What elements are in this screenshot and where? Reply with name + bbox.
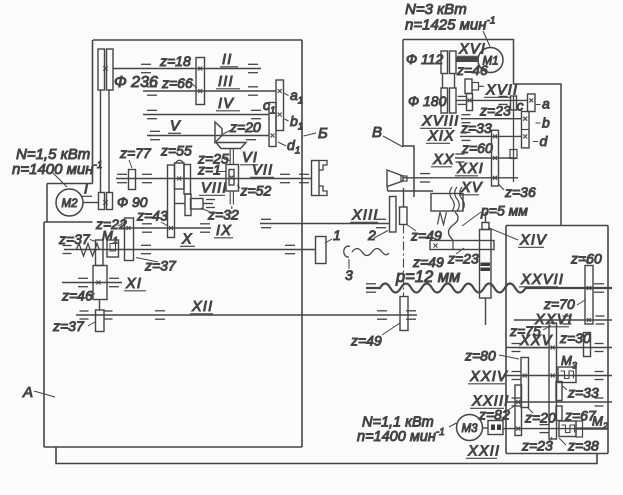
bearing XVII bbox=[499, 96, 508, 104]
gear col3 hub mark 2 bbox=[516, 427, 520, 431]
svg-text:z=23: z=23 bbox=[521, 438, 553, 454]
bearing VII 3 bbox=[280, 174, 290, 182]
svg-text:z=23: z=23 bbox=[479, 103, 511, 119]
bearing XXII 1 bbox=[540, 425, 549, 433]
svg-text:z=49: z=49 bbox=[350, 333, 382, 349]
shaft XI bbox=[62, 282, 122, 284]
label shaft XII bbox=[190, 299, 213, 315]
shaft XV bbox=[388, 190, 434, 192]
svg-text:z=46: z=46 bbox=[456, 62, 488, 78]
gear item 2 bbox=[390, 197, 397, 233]
label shaft XXII bbox=[466, 444, 500, 460]
leader z=32 bbox=[201, 208, 210, 212]
label shaft XVIII bbox=[420, 114, 459, 130]
svg-text:a: a bbox=[542, 96, 550, 112]
bevel z52 hub mark bbox=[230, 176, 234, 180]
gear z46 stub bbox=[479, 85, 485, 87]
clutch M2 teeth bbox=[562, 425, 575, 433]
shaft XXVI bbox=[514, 319, 612, 321]
svg-text:n=1400 мин-1: n=1400 мин-1 bbox=[357, 427, 445, 445]
bearing XXIV 1 bbox=[512, 372, 521, 380]
leader z=80 bbox=[499, 355, 519, 359]
leader item 1 bbox=[325, 239, 332, 243]
bearing XXI bbox=[420, 174, 430, 182]
gear block mid z55 bbox=[175, 163, 185, 189]
gear z=37 on XII bbox=[96, 310, 105, 332]
bevel gear z=20 bbox=[215, 122, 222, 143]
shaft X bbox=[64, 249, 316, 251]
svg-text:z=38: z=38 bbox=[567, 438, 599, 454]
bearing XII 2 bbox=[377, 311, 387, 319]
bearing XXVII right bbox=[594, 284, 604, 292]
svg-text:2: 2 bbox=[367, 227, 376, 243]
pulley F90 hub mark bbox=[103, 200, 107, 204]
screw XIV cap bbox=[482, 223, 489, 230]
worm thread curves bbox=[450, 187, 465, 211]
bevel housing z=52 bbox=[226, 165, 239, 192]
gear a1 hub mark bbox=[278, 89, 282, 93]
shaft XXII bbox=[503, 428, 608, 430]
gear z43 hub mark bbox=[169, 226, 173, 230]
svg-text:z=37: z=37 bbox=[52, 318, 85, 334]
gear b hub mark bbox=[523, 117, 527, 121]
pulley F236 right half bbox=[107, 49, 114, 90]
leader z=43 bbox=[161, 222, 168, 226]
gear b/d divider bbox=[522, 129, 530, 131]
gear z=49 upper bbox=[400, 207, 408, 225]
gear col3 hub mark bbox=[516, 400, 520, 404]
leader A bbox=[34, 391, 55, 397]
overrunning clutch M1 box bbox=[107, 240, 119, 257]
leader item 3 bbox=[348, 259, 350, 269]
screw nut band 2 bbox=[481, 268, 491, 272]
bearing XI right bbox=[109, 278, 119, 286]
leader z=46 bbox=[89, 294, 95, 297]
svg-text:XVI: XVI bbox=[458, 42, 486, 58]
svg-text:VIII: VIII bbox=[201, 181, 228, 197]
leader z=38 bbox=[559, 438, 566, 445]
gear z75 hub mark bbox=[551, 346, 555, 350]
machine bed bbox=[56, 447, 597, 464]
gear z18 hub mark bbox=[198, 67, 202, 71]
shaft V bbox=[147, 135, 269, 137]
svg-text:p=5 мм: p=5 мм bbox=[480, 203, 528, 219]
motor M2 platform box bbox=[46, 184, 48, 223]
label shaft XVI bbox=[457, 42, 486, 58]
gear z46 hub mark bbox=[97, 281, 101, 285]
motor M3 bbox=[457, 415, 483, 441]
svg-text:М3: М3 bbox=[462, 423, 479, 435]
gear column z75 long bbox=[549, 323, 557, 439]
bearing XXIII 1 bbox=[512, 398, 521, 406]
svg-text:z=20: z=20 bbox=[229, 119, 261, 135]
svg-text:z=33: z=33 bbox=[567, 385, 599, 401]
label shaft XXIII bbox=[470, 394, 509, 410]
leader z=60 feed bbox=[583, 258, 588, 264]
clutch M1 inner bbox=[110, 244, 116, 252]
svg-text:d: d bbox=[540, 133, 549, 149]
label shaft XXVII bbox=[519, 272, 564, 288]
screw XIV stem bbox=[485, 212, 487, 223]
gear column z33/z60/z36 bbox=[492, 130, 499, 186]
leader z=25 bbox=[224, 159, 230, 161]
pulley F112 left half bbox=[441, 51, 448, 74]
bearing VIII bbox=[206, 200, 215, 208]
leader XIV bbox=[488, 228, 518, 241]
shaft XIX bbox=[460, 135, 522, 137]
rack divider bbox=[452, 241, 454, 250]
svg-text:z=23: z=23 bbox=[447, 251, 479, 267]
shaft VII (spindle) bbox=[116, 178, 312, 180]
label shaft III bbox=[216, 74, 240, 90]
coupling square 2 bbox=[497, 425, 501, 431]
pulley F236 left half bbox=[98, 49, 105, 90]
label shaft XIX bbox=[426, 129, 455, 145]
leader z=75 bbox=[543, 326, 551, 331]
label shaft VII bbox=[250, 163, 274, 179]
leader z=36 bbox=[499, 184, 505, 190]
svg-text:n=1400 мин-1: n=1400 мин-1 bbox=[12, 160, 102, 178]
leader to M3 bbox=[449, 423, 457, 427]
leader z=23 feed bbox=[548, 437, 552, 443]
leader B bbox=[304, 133, 317, 136]
leader z=20 bbox=[223, 131, 230, 135]
leader B gearbox bbox=[383, 136, 403, 147]
gear block lower bbox=[185, 194, 191, 216]
gear a bbox=[528, 94, 536, 112]
pulley F90 left half bbox=[99, 193, 105, 210]
coupling square 1 bbox=[491, 425, 495, 431]
gear z=77 bbox=[129, 170, 136, 190]
svg-text:z=33: z=33 bbox=[460, 120, 492, 136]
label shaft XX bbox=[431, 152, 455, 168]
svg-text:A: A bbox=[22, 384, 33, 401]
svg-text:М2: М2 bbox=[62, 198, 79, 210]
svg-text:z=55: z=55 bbox=[160, 143, 192, 159]
gear c bbox=[511, 96, 517, 110]
shaft XXII thick bbox=[576, 427, 608, 429]
bevel inner z=52 bbox=[229, 170, 234, 186]
leader z=37 ratchet bbox=[90, 240, 96, 242]
svg-text:XIII: XIII bbox=[351, 208, 379, 224]
bearing shaft II right bbox=[248, 64, 258, 72]
shaft XXV bbox=[506, 347, 612, 349]
svg-text:z=18: z=18 bbox=[159, 53, 191, 69]
svg-text:XXII: XXII bbox=[467, 444, 500, 460]
svg-text:В: В bbox=[372, 124, 382, 141]
label shaft VIII bbox=[199, 181, 228, 197]
bearing XXVI 1 bbox=[563, 316, 572, 324]
belt left side bbox=[100, 90, 102, 193]
leader p=5 bbox=[462, 212, 481, 226]
cone-XV link bbox=[387, 187, 389, 192]
svg-text:z=60: z=60 bbox=[461, 140, 493, 156]
label shaft XXV bbox=[518, 333, 553, 349]
shaft VI tail dashes bbox=[231, 206, 233, 214]
svg-text:IV: IV bbox=[218, 96, 234, 112]
motor platform bottom edge bbox=[44, 221, 93, 223]
motor M2 bbox=[56, 189, 83, 216]
belt 2 right bbox=[454, 74, 456, 89]
leader z=37 XII bbox=[88, 322, 95, 326]
leader b1 bbox=[285, 119, 289, 121]
svg-text:XIX: XIX bbox=[427, 129, 455, 145]
svg-text:z=46: z=46 bbox=[61, 288, 93, 304]
gear z=32 bracket bbox=[191, 199, 204, 210]
svg-text:z=77: z=77 bbox=[119, 145, 152, 161]
shaft VI lower (double line) bbox=[229, 191, 231, 205]
gear z=49 lower bbox=[400, 297, 408, 331]
bearing VII 1 bbox=[117, 174, 127, 182]
leader a1 bbox=[285, 94, 289, 96]
leader z=49 lower bbox=[382, 323, 400, 335]
countershaft c bbox=[513, 96, 515, 182]
shaft VIII left stub bbox=[175, 203, 186, 205]
svg-text:1: 1 bbox=[333, 227, 341, 243]
svg-text:XII: XII bbox=[191, 299, 213, 315]
gear z22 hub mark bbox=[127, 226, 131, 230]
worm housing bbox=[431, 194, 463, 212]
leader z=37 shaft X bbox=[136, 258, 158, 263]
bearing X 0 bbox=[63, 246, 72, 254]
svg-text:z=1: z=1 bbox=[197, 162, 221, 178]
bearing XIII right bbox=[376, 219, 386, 227]
svg-text:z=80: z=80 bbox=[464, 348, 496, 364]
label shaft I bbox=[82, 181, 92, 197]
shaft II bbox=[113, 68, 261, 70]
bearing XI left bbox=[78, 278, 88, 286]
label shaft XIII bbox=[350, 208, 379, 224]
clutch M3 box bbox=[558, 367, 576, 383]
svg-text:II: II bbox=[222, 52, 232, 68]
leader z=70 bbox=[577, 300, 585, 305]
gear sleeve z55/z43 long bbox=[168, 165, 175, 238]
label shaft X bbox=[180, 232, 195, 248]
svg-text:Б: Б bbox=[318, 125, 328, 142]
svg-text:III: III bbox=[218, 74, 234, 90]
vertical shaft (dash-dot) bbox=[403, 225, 405, 297]
svg-text:XI: XI bbox=[125, 276, 142, 292]
shaft XXI bbox=[403, 177, 518, 179]
gear a hub mark bbox=[529, 98, 533, 102]
gear z=46 block bbox=[93, 266, 107, 300]
leader a bbox=[536, 104, 541, 106]
gear block z18/z66 bbox=[196, 58, 205, 105]
bearing XII 3 bbox=[406, 311, 416, 319]
pulley F236 hub mark bbox=[103, 66, 107, 70]
vertical shaft upper link bbox=[403, 188, 405, 207]
gear z55 hub mark bbox=[177, 177, 181, 181]
label shaft XVII bbox=[484, 83, 518, 99]
worm wheel zigzag bbox=[438, 212, 447, 225]
housing A right edge bbox=[301, 40, 303, 447]
pulley F90 right half bbox=[107, 193, 113, 210]
gear z70 hub mark bbox=[587, 318, 591, 322]
rack hub mark bbox=[434, 244, 438, 248]
bearing shaft IV right bbox=[251, 110, 261, 118]
gear z=23 on XVII bbox=[467, 94, 473, 111]
gear column c1/d1 bbox=[269, 103, 276, 147]
gear z60 hub mark (feed) bbox=[587, 286, 591, 290]
pulley F180 left half bbox=[441, 88, 448, 113]
bearing shaft IV left bbox=[147, 110, 157, 118]
shaft XX bbox=[455, 157, 516, 159]
leader to M1 bbox=[483, 31, 490, 47]
svg-text:XIV: XIV bbox=[519, 233, 547, 249]
feed box outline bbox=[506, 225, 608, 227]
leader b bbox=[536, 122, 541, 124]
screw XIV lower rod bbox=[485, 298, 487, 325]
link XI-XII bbox=[99, 300, 101, 311]
shaft IV bbox=[143, 114, 269, 116]
gearbox B outline left bbox=[403, 40, 414, 198]
svg-text:z=70: z=70 bbox=[543, 296, 575, 312]
gear z66 hub mark bbox=[198, 89, 202, 93]
svg-text:V: V bbox=[170, 119, 181, 135]
bearing shaft V left bbox=[150, 131, 160, 139]
gear column z80/z20 bbox=[521, 358, 529, 408]
pulley F180 right half bbox=[450, 88, 457, 113]
cone apex hub bbox=[401, 176, 407, 181]
crown bevel on shaft VI bbox=[216, 143, 246, 149]
gear z60 hub mark bbox=[493, 156, 497, 160]
leader z=82 bbox=[505, 405, 516, 412]
gear d1 hub mark bbox=[271, 134, 275, 138]
bearing IX right bbox=[200, 224, 210, 232]
svg-text:XXIV: XXIV bbox=[469, 369, 508, 385]
shaft VIII right stub bbox=[203, 203, 213, 205]
label shaft XI bbox=[124, 276, 146, 292]
bearing shaft III left bbox=[147, 87, 157, 95]
gear column a1/b1 bbox=[276, 80, 284, 131]
svg-text:Ф 180: Ф 180 bbox=[408, 93, 447, 109]
svg-text:I: I bbox=[84, 181, 89, 197]
svg-text:XXVII: XXVII bbox=[520, 272, 564, 288]
svg-text:b: b bbox=[542, 115, 550, 131]
shaft I bbox=[83, 202, 99, 204]
svg-text:z=60: z=60 bbox=[570, 251, 602, 267]
leader z=52 bbox=[237, 185, 240, 188]
bearing XII 0a bbox=[80, 311, 89, 319]
leader z=20 feed bbox=[528, 408, 534, 414]
gear block z22/z37 bbox=[125, 218, 134, 261]
bearing shaft III right bbox=[248, 87, 258, 95]
svg-text:XVIII: XVIII bbox=[421, 114, 459, 130]
svg-text:z=37: z=37 bbox=[58, 231, 91, 247]
svg-text:VII: VII bbox=[252, 163, 273, 179]
screw XIV body bbox=[480, 230, 492, 299]
belt right side bbox=[108, 90, 110, 193]
shaft XVIII bbox=[461, 118, 522, 120]
coupling M3 bbox=[488, 421, 503, 435]
label shaft XXVI bbox=[533, 312, 573, 328]
svg-text:X: X bbox=[181, 232, 193, 248]
driver item 1 bbox=[316, 237, 327, 264]
chuck body bbox=[312, 161, 320, 196]
gear z=30 bbox=[584, 333, 591, 357]
gear z=67 bbox=[556, 406, 562, 421]
gear b/d column bbox=[522, 112, 530, 148]
gear d hub mark bbox=[523, 134, 527, 138]
shaft IX bbox=[122, 227, 211, 229]
svg-text:XX: XX bbox=[432, 152, 455, 168]
coupling stub bbox=[503, 428, 506, 430]
clutch M3 teeth bbox=[561, 371, 574, 379]
gear col2 hub mark bbox=[523, 374, 527, 378]
gear z33 hub mark bbox=[493, 134, 497, 138]
leader d bbox=[533, 141, 538, 143]
leader z=77 bbox=[129, 160, 132, 168]
bearing XXIV 2 bbox=[595, 372, 604, 380]
flexible drive curve bbox=[449, 212, 459, 240]
bearing XXV 2 bbox=[595, 344, 604, 352]
housing A bottom edge bbox=[44, 446, 302, 448]
gear b1 hub mark bbox=[278, 113, 282, 117]
bearing VII 2 bbox=[142, 174, 152, 182]
screw nut band 1 bbox=[481, 263, 491, 267]
pulley F112 right half bbox=[450, 51, 457, 74]
gear column z82/z23 bbox=[515, 385, 522, 436]
leader z=1 bbox=[217, 171, 226, 173]
bearing XVIII bbox=[462, 115, 471, 123]
bearing XXV 1 bbox=[512, 344, 521, 352]
gear z=46 on XVII bbox=[465, 79, 472, 94]
leader z=33 feed bbox=[563, 386, 568, 390]
leader to motor M2 bbox=[52, 172, 67, 187]
gear z23 hub mark bbox=[468, 98, 472, 102]
gear block right z25 bbox=[184, 165, 191, 195]
gear long hub mark 2 bbox=[551, 374, 555, 378]
clutch M2 box bbox=[559, 421, 576, 437]
chuck top jaw bbox=[319, 161, 327, 171]
bearing XXIII 2 bbox=[595, 398, 604, 406]
label shaft XIV bbox=[518, 233, 547, 249]
leader z=23 mid bbox=[456, 248, 464, 254]
svg-text:z=52: z=52 bbox=[240, 183, 272, 199]
chuck bottom jaw bbox=[319, 186, 327, 196]
svg-text:N=3 кВт: N=3 кВт bbox=[405, 1, 467, 18]
leader d1 bbox=[278, 142, 286, 146]
shaft XXIV bbox=[506, 375, 612, 377]
svg-text:z=43: z=43 bbox=[136, 208, 168, 224]
label shaft V bbox=[168, 119, 181, 135]
bearing shaft V right bbox=[246, 131, 256, 139]
housing A left edge lower bbox=[43, 222, 45, 447]
label shaft XV bbox=[459, 180, 483, 196]
bearing XII 0b bbox=[104, 311, 113, 319]
countershaft gear XX bbox=[510, 150, 517, 159]
label shaft II bbox=[220, 52, 238, 68]
bearing XIII left bbox=[261, 219, 271, 227]
shaft XXIII bbox=[506, 401, 612, 403]
flexible link item 3 bbox=[344, 246, 389, 257]
gearbox B outline right bbox=[403, 40, 561, 226]
label shaft XXI bbox=[455, 161, 484, 177]
motor M1 bbox=[478, 48, 503, 73]
svg-text:XXV: XXV bbox=[519, 333, 553, 349]
belt 2 left bbox=[442, 74, 444, 89]
svg-text:z=36: z=36 bbox=[504, 184, 536, 200]
shaft III bbox=[143, 90, 276, 92]
svg-text:z=32: z=32 bbox=[207, 207, 239, 223]
bearing VII spindle nose bbox=[299, 174, 309, 182]
shaft VI upper (double line) bbox=[229, 149, 231, 164]
svg-text:Ф 236: Ф 236 bbox=[114, 74, 158, 91]
svg-text:XV: XV bbox=[460, 180, 483, 196]
label shaft IX bbox=[214, 223, 233, 239]
bearing XII 1 bbox=[155, 311, 165, 319]
leader item 2 bbox=[374, 231, 388, 239]
